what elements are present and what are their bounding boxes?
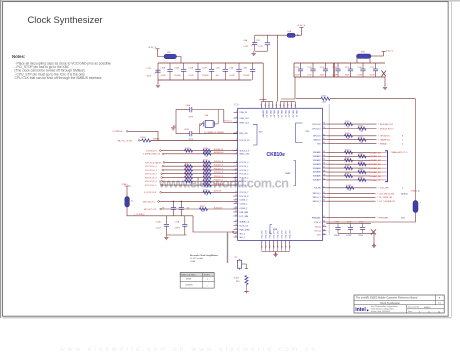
svg-text:〉MOD AUTO B: 〉MOD AUTO B [378, 123, 393, 126]
power +3.3V_S [382, 51, 386, 53]
capacitor C176 [362, 63, 364, 69]
svg-text:32: 32 [323, 142, 325, 144]
svg-text:PCICLK_6: PCICLK_6 [239, 185, 248, 187]
svg-text:R221: R221 [204, 190, 209, 192]
svg-text:50: 50 [284, 104, 286, 106]
svg-text:PCICLK_4: PCICLK_4 [214, 176, 223, 178]
svg-text:SDRAM6: SDRAM6 [313, 175, 321, 178]
svg-text:A SUSCLK: A SUSCLK [214, 148, 224, 151]
svg-text:R215: R215 [185, 175, 190, 177]
svg-text:CPUCLK1: CPUCLK1 [312, 128, 321, 130]
resistor R222 [200, 207, 208, 210]
svg-text:22: 22 [281, 246, 283, 248]
power rail top [294, 62, 385, 64]
svg-text:RTCX_1: RTCX_1 [225, 121, 232, 123]
svg-text:SCLK_CK: SCLK_CK [239, 225, 248, 227]
svg-text:R242: R242 [345, 157, 350, 159]
wire jumper tap [242, 264, 247, 269]
svg-text:1.1UF: 1.1UF [258, 46, 264, 48]
wire [162, 173, 237, 175]
svg-text:REF0_CLK: REF0_CLK [239, 122, 249, 124]
ground [173, 125, 176, 127]
svg-text:No mode Clock Long/Before: No mode Clock Long/Before [190, 254, 219, 257]
svg-text:SMB: SMB [273, 229, 278, 231]
svg-text:C10A: C10A [156, 220, 161, 223]
capacitor C4B [224, 63, 226, 69]
capacitor C10A [183, 63, 185, 69]
wire crystal bottom [326, 213, 415, 223]
svg-text:XTAL_OUT: XTAL_OUT [239, 117, 249, 120]
svg-text:SDRAM_2/2: SDRAM_2/2 [370, 159, 382, 162]
svg-text:LANCLK: LANCLK [313, 139, 321, 142]
svg-text:PWR_DWN: PWR_DWN [239, 229, 250, 231]
DIMM bus bracket [385, 151, 388, 182]
svg-text:M30 33CLK1: M30 33CLK1 [143, 201, 156, 203]
resistor R233 top [321, 97, 330, 100]
resistor R216 [185, 180, 193, 183]
svg-text:14: 14 [235, 184, 237, 186]
svg-text:0.1UF: 0.1UF [229, 75, 235, 77]
ground [157, 80, 159, 84]
svg-text:46: 46 [269, 104, 271, 106]
svg-text:SMB_CLK0: SMB_CLK0 [239, 154, 249, 156]
svg-text:4: 4 [236, 132, 237, 134]
svg-text:M PCICLK_2: M PCICLK_2 [145, 174, 158, 176]
wire VDD feed 3 [281, 77, 295, 99]
svg-text:〉RIRUA: 〉RIRUA [378, 143, 387, 146]
svg-text:220UF: 220UF [334, 235, 341, 237]
svg-text:21: 21 [277, 246, 279, 248]
svg-text:VDD_P1: VDD_P1 [269, 110, 271, 117]
svg-text:R241: R241 [359, 153, 364, 155]
svg-text:49: 49 [280, 104, 282, 106]
wire row SDRAM_1/1 [326, 155, 370, 157]
svg-text:intel: intel [355, 307, 366, 313]
svg-text:SDRAM7: SDRAM7 [313, 179, 321, 182]
resistor R215 [185, 176, 193, 179]
svg-text:VDD_S1: VDD_S1 [295, 110, 297, 117]
svg-text:VSS_CK3: VSS_CK3 [285, 231, 287, 239]
svg-text:R236: R236 [345, 133, 350, 135]
resistor R209 [203, 149, 211, 152]
capacitor C7B2 [173, 201, 175, 207]
svg-text:SDRAM1: SDRAM1 [313, 155, 321, 158]
wire row GPU/DOS [326, 135, 376, 137]
svg-text:R216: R216 [204, 178, 209, 180]
resistor R208 [185, 149, 193, 152]
svg-text:SDRAM4: SDRAM4 [313, 167, 321, 170]
svg-text:PCICLK_3: PCICLK_3 [214, 172, 223, 174]
diode D2 [382, 71, 387, 77]
svg-text:REF14_2: REF14_2 [313, 201, 321, 203]
svg-text:VDD_CK0: VDD_CK0 [266, 230, 268, 238]
svg-text:〉GPU/DOS: 〉GPU/DOS [378, 135, 390, 138]
junction bar [333, 63, 335, 77]
svg-text:〉LANRPCIC: 〉LANRPCIC [378, 139, 391, 142]
svg-text:VDD_A: VDD_A [314, 230, 321, 233]
svg-text:FREQSEL: FREQSEL [312, 217, 321, 219]
svg-text:Clock Synthesizer: Clock Synthesizer [28, 14, 103, 25]
svg-text:R246: R246 [345, 173, 350, 175]
resistor R221 [203, 191, 211, 194]
svg-text:0.1U: 0.1U [307, 75, 312, 77]
svg-text:2: 2 [236, 117, 237, 119]
svg-text:SDRAM_7/7: SDRAM_7/7 [370, 179, 382, 182]
svg-text:R222: R222 [200, 206, 205, 208]
svg-text:SDRAM_0/0: SDRAM_0/0 [370, 151, 382, 154]
capacitor C4A electrolytic [254, 35, 256, 42]
capacitor C186 [350, 223, 352, 227]
svg-text:A33: A33 [323, 100, 326, 103]
ground [373, 243, 375, 244]
capacitor C175 [350, 63, 352, 69]
svg-text:18: 18 [266, 246, 268, 248]
svg-text:6: 6 [419, 311, 420, 313]
svg-text:VSS_CK0: VSS_CK0 [262, 231, 264, 239]
ferrite bead FB3 [356, 56, 358, 63]
svg-text:PCICLK_F0: PCICLK_F0 [239, 140, 249, 142]
svg-text:〉SOL_MR: 〉SOL_MR [378, 187, 389, 190]
svg-text:2200UF: 2200UF [174, 75, 182, 77]
svg-text:M PCICLK_5: M PCICLK_5 [145, 185, 158, 187]
svg-text:24: 24 [289, 246, 291, 248]
svg-text:VDD_C1: VDD_C1 [284, 110, 286, 117]
svg-text:M0 100T CLK: M0 100T CLK [144, 209, 157, 211]
svg-text:R234: R234 [345, 121, 350, 123]
svg-text:22: 22 [235, 220, 237, 222]
capacitor C172 [312, 63, 314, 69]
svg-text:18: 18 [235, 202, 237, 204]
svg-text:29: 29 [323, 127, 325, 129]
svg-text:R217: R217 [204, 182, 209, 184]
svg-text:13: 13 [235, 180, 237, 182]
wire [162, 184, 237, 186]
svg-text:REF_CLK: REF_CLK [239, 133, 248, 135]
svg-text:42: 42 [323, 192, 325, 194]
wire crystal left lead [199, 123, 203, 125]
svg-text:220UF: 220UF [174, 228, 181, 230]
wire row SDRAM_7/7 [326, 179, 370, 181]
wire row SDRAM_2/2 [326, 159, 370, 161]
svg-text:33: 33 [323, 151, 325, 153]
U1 left pins [234, 111, 238, 113]
svg-text:35: 35 [323, 159, 325, 161]
resistor R234 [345, 123, 353, 126]
resistor R242 [345, 159, 353, 162]
capacitor C171 [300, 63, 302, 69]
svg-text:+3.3V_S: +3.3V_S [385, 51, 394, 53]
svg-text:37: 37 [323, 167, 325, 169]
svg-text:SEL_0: SEL_0 [239, 233, 245, 235]
svg-text:20: 20 [273, 246, 275, 248]
svg-text:CLK66_2: CLK66_2 [239, 208, 247, 210]
resistor R211 [203, 161, 211, 164]
svg-text:R210: R210 [204, 151, 209, 153]
U1 SMB group bracket [270, 225, 272, 234]
wire cap to XTAL_IN pin [192, 110, 238, 123]
svg-text:REF14_1: REF14_1 [313, 197, 321, 199]
svg-text:PI PCICLK_0: PI PCICLK_0 [145, 166, 158, 168]
wire bead to +3.3V [371, 55, 384, 57]
capacitor C10C [165, 216, 167, 225]
svg-text:C175: C175 [345, 67, 350, 69]
svg-text:4: 4 [402, 144, 403, 146]
svg-text:R247: R247 [359, 177, 364, 179]
svg-text:19: 19 [270, 246, 272, 248]
svg-text:VDD_CK1: VDD_CK1 [274, 230, 276, 238]
sheet margin grey strip [0, 0, 460, 2]
wire VREF feed [296, 98, 321, 100]
svg-text:A RSMCLK: A RSMCLK [214, 151, 224, 154]
svg-text:〉14_31818_SB: 〉14_31818_SB [377, 196, 393, 199]
svg-text:C16A: C16A [160, 66, 165, 69]
resistor R246 [345, 174, 353, 177]
svg-text:VDD_CK2: VDD_CK2 [281, 230, 283, 238]
wire row FREQSEL [326, 217, 375, 219]
svg-text:PCICLK_4: PCICLK_4 [239, 177, 248, 179]
capacitor C187 [362, 223, 364, 227]
resistor R215 [203, 176, 211, 179]
svg-text:41: 41 [323, 186, 325, 188]
svg-text:PCICLK_2: PCICLK_2 [239, 170, 248, 172]
svg-text:VDD_S0: VDD_S0 [291, 110, 293, 117]
svg-text:SA_PCI_CLKM: SA_PCI_CLKM [118, 140, 133, 143]
svg-text:R243: R243 [359, 161, 364, 163]
ground [244, 291, 248, 293]
svg-text:R209: R209 [204, 148, 209, 150]
svg-text:C15B: C15B [188, 67, 193, 69]
svg-text:R214: R214 [204, 171, 209, 173]
svg-text:REF14_0: REF14_0 [313, 193, 321, 195]
svg-text:C17B: C17B [202, 67, 207, 69]
capacitor C17C [184, 216, 186, 225]
svg-text:PI PCICLK_1: PI PCICLK_1 [145, 170, 158, 172]
svg-text:CLK66_1: CLK66_1 [239, 204, 247, 206]
wire [161, 208, 237, 210]
capacitor C177 [375, 63, 377, 69]
svg-text:SDRAM2: SDRAM2 [313, 159, 321, 162]
svg-text:DOT_48M: DOT_48M [239, 216, 248, 218]
svg-text:R237: R237 [359, 137, 364, 139]
svg-text:0.1UF: 0.1UF [346, 235, 352, 237]
svg-text:14: 14 [438, 311, 440, 313]
svg-text:R216: R216 [185, 178, 190, 180]
svg-text:USB_48M: USB_48M [239, 212, 248, 214]
resistor R210 [203, 152, 211, 155]
svg-text:C173: C173 [320, 67, 325, 69]
wire [162, 180, 237, 182]
svg-text:DIMM: DIMM [285, 173, 291, 175]
svg-text:3: 3 [402, 188, 403, 190]
svg-text:24: 24 [235, 228, 237, 230]
svg-text:Clock Synthesizer: Clock Synthesizer [380, 302, 400, 305]
svg-text:PCICLK_6: PCICLK_6 [214, 183, 223, 185]
svg-text:R213: R213 [185, 167, 190, 169]
svg-text:M PCICLK_3: M PCICLK_3 [145, 177, 158, 179]
wire [164, 153, 238, 155]
svg-text:H/0: H/0 [216, 75, 219, 77]
svg-text:23: 23 [235, 224, 237, 226]
svg-text:38: 38 [323, 170, 325, 172]
resistor R213 [185, 168, 193, 171]
svg-text:SDRAM_4/4: SDRAM_4/4 [370, 167, 382, 170]
svg-text:PCICLK_1: PCICLK_1 [214, 165, 223, 167]
svg-text:R212: R212 [204, 163, 209, 165]
wire caps rail top [326, 222, 371, 224]
svg-text:CPU CLK that can be shut off t: CPU CLK that can be shut off through the… [15, 76, 102, 80]
title block frame [354, 295, 444, 313]
svg-text:39: 39 [323, 174, 325, 176]
capacitor C9A [252, 63, 254, 69]
svg-text:33: 33 [206, 156, 208, 158]
wire row SDRAM_0/0 [326, 151, 370, 153]
capacitor C7B [267, 35, 269, 43]
resistor R235 [358, 127, 366, 130]
wire row CLK_SM 14.318 [326, 192, 375, 194]
wire to bottom rail [193, 216, 238, 232]
U1 right pins [323, 123, 327, 125]
svg-text:CL-PCI mobile: CL-PCI mobile [190, 258, 204, 260]
wire PCI_CLKM [151, 139, 238, 141]
svg-text:30: 30 [323, 134, 325, 136]
svg-text:VDDREF: VDDREF [261, 110, 263, 119]
svg-text:45: 45 [323, 216, 325, 218]
resistor R244 [345, 167, 353, 170]
svg-text:33: 33 [361, 131, 363, 133]
svg-text:0.1UF: 0.1UF [370, 75, 376, 77]
svg-text:0.1UF: 0.1UF [188, 75, 194, 77]
svg-text:17: 17 [235, 198, 237, 200]
svg-text:R214: R214 [185, 171, 190, 173]
wire VDD feed 1 [259, 63, 263, 100]
svg-text:48: 48 [276, 104, 278, 106]
svg-text:C171: C171 [295, 67, 300, 69]
wire row SDRAM_5/5 [326, 171, 370, 173]
svg-text:2700PF: 2700PF [243, 75, 250, 77]
svg-text:SDRAM_5/5: SDRAM_5/5 [370, 171, 382, 174]
svg-text:STOP#: STOP# [204, 275, 210, 277]
svg-text:Intel Platform Arch Organizati: Intel Platform Arch Organization [371, 305, 398, 308]
capacitor C15B [197, 63, 199, 69]
svg-text:PCICLK_3: PCICLK_3 [239, 174, 248, 176]
svg-text:R213: R213 [204, 167, 209, 169]
U1 bottom pin bracket [262, 251, 290, 253]
svg-text:454610: 454610 [424, 307, 430, 309]
svg-text:CK810e: CK810e [267, 152, 286, 158]
svg-text:C10A: C10A [185, 104, 190, 107]
grey stub line [227, 232, 229, 263]
capacitor C185 [337, 223, 339, 227]
svg-text:44: 44 [323, 200, 325, 202]
svg-text:47: 47 [323, 225, 325, 227]
resistor R212 [203, 165, 211, 168]
svg-text:26: 26 [235, 236, 237, 238]
svg-text:XTAL_IN: XTAL_IN [239, 111, 247, 114]
resistor R214 [203, 172, 211, 175]
watermark vertical stroke [328, 104, 330, 235]
svg-text:C10A: C10A [174, 66, 179, 69]
wire to ground [255, 50, 268, 52]
resistor R216 [203, 180, 211, 183]
svg-text:40: 40 [323, 178, 325, 180]
wire L_CLKREQ [127, 207, 193, 216]
svg-text:C186: C186 [347, 222, 352, 224]
svg-text:R208: R208 [185, 148, 190, 150]
wire [159, 200, 237, 202]
svg-text:M PCICLK_4: M PCICLK_4 [145, 181, 158, 183]
wire row MODUL EX T7 [326, 128, 376, 130]
svg-text:CLKRUN: CLKRUN [185, 284, 193, 286]
svg-text:C10B: C10B [184, 129, 189, 131]
resistor R241 [358, 155, 366, 158]
svg-text:VDD_CK3: VDD_CK3 [289, 230, 291, 238]
capacitor C8A [238, 63, 240, 69]
svg-text:XTAL14: XTAL14 [314, 221, 321, 224]
resistor R237 [358, 138, 366, 141]
U1 bottom pins [261, 240, 263, 248]
svg-text:R245: R245 [359, 169, 364, 171]
svg-text:L_CLKREQ: L_CLKREQ [134, 214, 145, 216]
svg-text:RAM=48/16 T1.5: RAM=48/16 T1.5 [392, 151, 409, 154]
wire bead to rail [177, 57, 182, 64]
wire row RIRUA [326, 143, 376, 145]
svg-text:Date:: Date: [408, 310, 413, 313]
svg-text:SOLMR: SOLMR [314, 188, 321, 190]
svg-text:Notes:: Notes: [12, 54, 26, 59]
capacitor C10B [176, 133, 190, 135]
svg-text:〉FREQSEL: 〉FREQSEL [377, 217, 389, 220]
svg-text:A IRCLK: A IRCLK [214, 190, 222, 193]
wire row 14_31818_SB [326, 196, 375, 198]
svg-text:〉CLI_14318TA CK: 〉CLI_14318TA CK [377, 200, 395, 203]
svg-text:PCICLK_2: PCICLK_2 [214, 168, 223, 170]
svg-text:SA BCD: SA BCD [401, 192, 409, 195]
capacitor C170 electrolytic [157, 68, 159, 80]
svg-text:PCICLK_0: PCICLK_0 [239, 162, 248, 164]
svg-text:PCICLK_7: PCICLK_7 [239, 192, 248, 194]
svg-text:1: 1 [207, 279, 208, 281]
svg-text:〉CLK_SM 14.318: 〉CLK_SM 14.318 [377, 192, 395, 195]
svg-text:R240: R240 [345, 150, 350, 152]
svg-text:PCICLK_5: PCICLK_5 [239, 181, 248, 183]
wire crystal rail [175, 110, 177, 134]
ferrite bead L6A [287, 33, 295, 37]
wire [164, 169, 238, 171]
svg-text:0.1UF: 0.1UF [160, 75, 166, 77]
power rail left-bank bottom [158, 79, 252, 81]
svg-text:VSS_CK2: VSS_CK2 [278, 231, 280, 239]
svg-text:51: 51 [287, 104, 289, 106]
svg-text:21: 21 [235, 215, 237, 217]
U1 top pins [261, 102, 263, 109]
svg-text:0.1UF: 0.1UF [357, 75, 363, 77]
svg-text:SDRAM5: SDRAM5 [313, 171, 321, 174]
svg-text:20: 20 [235, 211, 237, 213]
svg-text:R212: R212 [185, 163, 190, 165]
svg-text:2200UF: 2200UF [202, 75, 210, 77]
svg-text:Document No.: Document No. [408, 306, 420, 309]
wire row SDRAM_6/6 [326, 175, 370, 177]
resistor R240 [345, 151, 353, 154]
svg-text:C185: C185 [334, 222, 339, 224]
svg-text:SDRAM_6/6: SDRAM_6/6 [370, 175, 382, 178]
svg-text:43: 43 [323, 196, 325, 198]
crystal X1 [126, 186, 128, 197]
ferrite bead FB2 [164, 54, 177, 58]
svg-text:44: 44 [261, 104, 263, 106]
svg-text:C17A: C17A [174, 220, 179, 223]
U1 top pin bus [262, 101, 273, 103]
